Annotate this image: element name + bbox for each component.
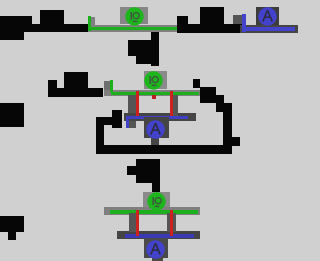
wire (blue horizontal, top row): [243, 27, 295, 31]
terminal shadow (middle green lead): [104, 81, 112, 92]
wire (top-left black band segment): [0, 24, 88, 32]
wire (middle blue horizontal): [127, 116, 188, 119]
wire shadow (middle blue band): [124, 113, 196, 121]
wire stub (black, into G3): [152, 183, 160, 192]
electrode shadow (left of E4): [167, 213, 170, 232]
meter body plate (dark block under A1): [256, 7, 279, 25]
loop wire junction block (black, left of blue wire): [112, 110, 122, 128]
text label T7 (left of middle figure): [64, 72, 88, 88]
text label T1 (top-left, line 1): [0, 16, 32, 24]
electrode E2 (red, middle figure): [170, 91, 173, 116]
ammeter A3 (blue meter, bottom figure): [145, 239, 166, 260]
ammeter A2 (blue meter, middle figure): [145, 119, 166, 140]
galvanometer G1 (green meter, top row): [124, 6, 145, 27]
meter stub (below A2): [151, 138, 159, 147]
meter stub (below A3): [152, 258, 163, 261]
text label T3 (below band, left): [0, 32, 24, 40]
electrode E1 (red, middle figure): [136, 91, 139, 116]
meter needle tick (red, under G2): [152, 95, 156, 99]
loop wire L1: left bar: [96, 117, 104, 149]
meter body plate (dark block under A3): [144, 238, 168, 258]
loop wire L1: right bar: [223, 103, 232, 146]
meter body plate (gray block under G3): [143, 192, 170, 208]
wire (middle green horizontal): [111, 92, 199, 95]
electrode shadow (left of E1): [128, 95, 136, 128]
wire shadow (green wire gray band): [88, 25, 177, 32]
wire (bottom green horizontal): [110, 210, 198, 214]
galvanometer G2 (green meter, middle figure): [143, 70, 164, 91]
wire (top middle black band segment): [177, 24, 243, 33]
meter body plate (gray block under G1): [120, 7, 148, 24]
meter body plate (gray block under G2): [144, 71, 167, 89]
text label T5 (large, above mid band): [200, 7, 224, 24]
text label T4 (small, above mid band): [177, 16, 188, 24]
wire shadow (bottom blue band): [117, 231, 200, 239]
loop wire L1: bottom-right corner: [232, 137, 240, 146]
text label T2 (top-left, tall word): [40, 10, 64, 24]
loop wire L1: bottom band: [96, 145, 232, 154]
loop wire L1: top-left arm: [96, 117, 113, 125]
galvanometer G3 (green meter, bottom figure): [146, 191, 167, 212]
meter body plate (dark block under A2): [144, 117, 169, 138]
wire shadow (middle green band): [104, 90, 200, 96]
electrode E3 (red, bottom figure): [136, 210, 139, 236]
wire (bottom blue horizontal): [125, 234, 194, 238]
terminal shadow (green lead): [91, 17, 95, 27]
text label T8 (far left block): [0, 103, 24, 127]
ammeter A1 (blue meter, top row): [257, 6, 278, 27]
loop wire L1: right step 1: [200, 87, 216, 103]
wire (green horizontal, top row): [90, 27, 177, 30]
electrode shadow (right of E2): [173, 95, 178, 116]
wire shadow (blue wire dark band): [240, 25, 298, 33]
wire lead (middle green vertical): [110, 80, 113, 92]
electrode shadow (right of E4): [173, 213, 176, 232]
electrode shadow (left of E3): [129, 213, 136, 232]
loop wire L1: top-right stub: [193, 79, 200, 88]
wire lead (middle blue vertical, left end): [126, 116, 129, 128]
text label T6 (word right of G1 hanging below wire): [151, 32, 159, 66]
wire lead (green vertical terminal): [88, 16, 91, 31]
loop wire L1: right step 2: [216, 95, 224, 112]
wire shadow (bottom green band): [104, 207, 200, 215]
wire lead (blue vertical terminal): [242, 14, 246, 32]
electrode E4 (red, bottom figure): [170, 210, 173, 236]
terminal shadow (blue lead): [233, 15, 242, 24]
text label T10 (bottom-left T-shape block): [0, 216, 24, 232]
text label T9 (above bottom figure): [136, 159, 160, 183]
